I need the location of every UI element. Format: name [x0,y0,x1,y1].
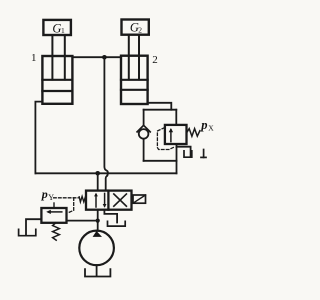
check valve ball [139,129,149,139]
label pY [41,187,54,202]
wire: main vertical from node down to crossover [104,57,108,172]
sequence valve flow arrow [169,128,173,142]
wire: pump suction line [96,265,98,276]
node: junction on rod-end wire [102,55,107,60]
cylinder 1 body [42,56,72,104]
wire: check valve outlet stem [143,140,145,161]
svg-text:2: 2 [138,25,142,34]
spring of relief valve [53,223,60,240]
spring of sequence valve [187,129,200,137]
pump flow triangle [93,231,102,237]
svg-text:1: 1 [31,52,37,64]
tank symbol at pump suction [85,269,110,276]
check valve seat [137,125,150,132]
svg-text:p: p [200,118,207,132]
solenoid of directional valve [133,195,146,203]
tank symbol at sequence valve drain [184,151,192,157]
svg-text:p: p [41,187,48,201]
load box G2 [122,20,149,35]
wire: valve T port to tank [104,210,117,223]
relief valve flow arrow [46,210,62,214]
spring of directional valve [79,196,86,202]
tank symbol at directional valve [108,221,126,226]
spring anchor stub [201,150,206,158]
wire: cylinder 2 cap-end port [148,103,172,110]
wire: cylinder 1 cap-end port [35,102,42,174]
sequence valve body pX [165,125,187,144]
directional valve left cell up arrow [94,193,98,207]
pump [79,231,114,266]
wire: rail joining check valve and sequence valve outlets [144,160,177,162]
wire: stub from junction down to valve port A [97,173,99,190]
wire: valve P port down to pump [97,210,99,231]
wire: relief valve inlet line [67,220,98,222]
wire: crossover hop down to valve port B [106,174,108,190]
svg-text:1: 1 [61,26,65,35]
relief valve body pY [41,208,66,223]
tank symbol at relief valve [19,229,36,235]
wire: sequence valve outlet down to rail and bottom line [176,144,178,173]
dashed pilot line of sequence valve [157,128,174,150]
wire: branch to check valve and sequence valve [144,109,177,111]
wire: relief valve outlet to tank [26,219,41,234]
wire: rod-end ports of cylinder 1 and 2 [72,56,121,58]
pilot stub on relief valve [53,203,55,208]
cylinder 2 piston rod [129,35,139,80]
cylinder 2 body [121,56,148,104]
cylinder 1 piston rod [52,35,64,80]
directional valve left cell down arrow [103,193,107,207]
node: junction to valve port A [95,171,100,176]
wire: check valve inlet stem [143,110,145,126]
wire: sequence valve top port [175,110,177,125]
svg-text:X: X [208,124,214,133]
node: junction pump outlet with relief valve line [96,219,100,223]
dashed pilot line from relief valve to directional valve [54,197,80,199]
dashed pilot drop to relief valve [69,198,74,213]
wire: drain branch to tank [177,147,191,156]
label pX [200,118,214,133]
wire: bottom horizontal line [35,172,176,174]
svg-text:2: 2 [152,54,158,66]
load box G1 [43,20,71,36]
directional valve body [86,191,132,210]
directional valve right cell crossed arrows [114,194,127,206]
